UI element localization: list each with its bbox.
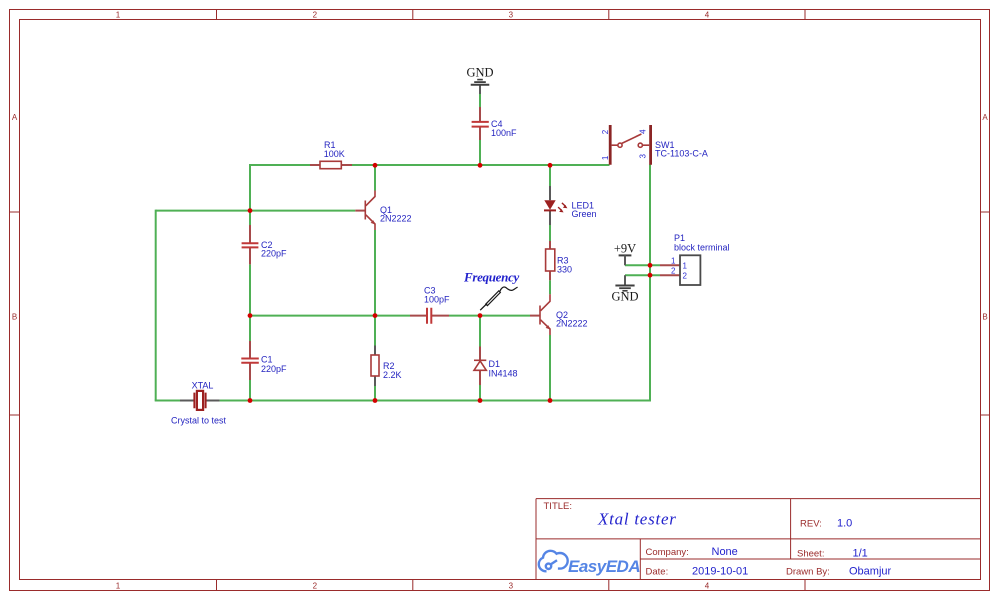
svg-text:1.0: 1.0 — [837, 518, 852, 530]
wire right vertical x650 — [649, 165, 651, 401]
svg-text:4: 4 — [705, 11, 710, 20]
ground GND top — [466, 66, 493, 95]
wire R2 bottom to bottom rail — [374, 386, 376, 401]
svg-text:100pF: 100pF — [424, 295, 450, 305]
EasyEDA logo cloud icon — [539, 551, 568, 572]
frame ticks left — [10, 212, 20, 415]
svg-text:IN4148: IN4148 — [489, 369, 518, 379]
wire top rail right of R1 — [352, 164, 610, 166]
svg-text:1: 1 — [683, 262, 688, 271]
svg-text:P1: P1 — [674, 233, 685, 243]
switch SW1 — [610, 125, 650, 165]
connector P1 block terminal — [660, 255, 700, 285]
resistor R3 — [546, 241, 555, 280]
svg-text:100K: 100K — [324, 149, 345, 159]
capacitor C4 — [472, 107, 489, 140]
frame ticks right — [981, 212, 990, 415]
junction dots — [248, 163, 653, 403]
svg-text:1: 1 — [671, 257, 676, 266]
power flag +9V — [614, 241, 636, 265]
svg-text:B: B — [12, 313, 17, 322]
wire vertical x250 top to C2 — [249, 164, 251, 225]
svg-text:EasyEDA: EasyEDA — [568, 557, 640, 576]
capacitor C2 — [242, 225, 259, 264]
svg-text:330: 330 — [557, 265, 572, 275]
wire top rail to LED1 — [549, 165, 551, 186]
crystal XTAL — [180, 391, 220, 410]
svg-text:REV:: REV: — [800, 519, 822, 530]
svg-text:Sheet:: Sheet: — [797, 549, 824, 560]
node top rail / Q1 collector — [373, 163, 378, 168]
svg-text:1/1: 1/1 — [853, 548, 868, 560]
frame ticks bottom — [217, 580, 806, 591]
wire +9V to P1 pin1 — [625, 264, 660, 266]
svg-text:block terminal: block terminal — [674, 243, 730, 253]
svg-text:Date:: Date: — [646, 567, 669, 578]
svg-text:A: A — [982, 113, 988, 122]
node bottom rail / R2 — [373, 398, 378, 403]
svg-text:XTAL: XTAL — [192, 381, 214, 391]
svg-text:2: 2 — [683, 272, 688, 281]
svg-text:Green: Green — [572, 209, 597, 219]
node base rail / C2 — [248, 208, 253, 213]
svg-text:220pF: 220pF — [261, 364, 287, 374]
svg-text:C1: C1 — [261, 355, 273, 365]
probe symbol — [480, 287, 517, 310]
svg-text:3: 3 — [509, 582, 514, 591]
svg-text:220pF: 220pF — [261, 249, 287, 259]
wire GND to P1 pin2 — [625, 274, 660, 276]
wire top rail left of R1 — [250, 164, 310, 166]
title block borders — [536, 499, 981, 580]
diode D1 — [474, 347, 486, 386]
wire bottom rail left of XTAL — [155, 400, 180, 402]
svg-text:None: None — [712, 546, 738, 558]
node top rail / C4 — [478, 163, 483, 168]
wire D1 to bottom rail — [479, 385, 481, 401]
wire middle rail y315 right of C3 — [449, 315, 530, 317]
svg-text:Obamjur: Obamjur — [849, 566, 892, 578]
svg-text:4: 4 — [705, 582, 710, 591]
svg-text:1: 1 — [116, 11, 121, 20]
svg-text:GND: GND — [611, 290, 638, 304]
svg-text:1: 1 — [601, 155, 610, 160]
svg-text:2: 2 — [313, 582, 318, 591]
node top rail / LED1 — [548, 163, 553, 168]
svg-text:Frequency: Frequency — [463, 270, 520, 285]
svg-text:TC-1103-C-A: TC-1103-C-A — [655, 149, 708, 159]
svg-text:A: A — [12, 113, 18, 122]
svg-text:Drawn By:: Drawn By: — [786, 567, 830, 578]
svg-text:+9V: +9V — [614, 241, 636, 255]
svg-text:2019-10-01: 2019-10-01 — [692, 566, 748, 578]
svg-text:2N2222: 2N2222 — [380, 214, 412, 224]
frame ticks top — [217, 10, 806, 20]
transistor Q2 — [530, 294, 551, 335]
svg-text:Crystal to test: Crystal to test — [171, 416, 227, 426]
svg-text:D1: D1 — [489, 359, 501, 369]
node bottom rail / D1 — [478, 398, 483, 403]
resistor R1 — [310, 161, 352, 168]
wire Q1 collector to top rail — [374, 165, 376, 191]
svg-text:1: 1 — [116, 582, 121, 591]
svg-text:Company:: Company: — [646, 547, 689, 558]
wire LED1 to R3 — [549, 225, 551, 241]
wire vertical x250 C1 to bottom rail — [249, 380, 251, 401]
svg-text:TITLE:: TITLE: — [544, 501, 573, 512]
wire R3 to Q2 collector — [549, 280, 551, 294]
wire Q1 emitter to middle rail — [374, 230, 376, 346]
node P1 pin1 — [648, 263, 653, 268]
capacitor C1 — [241, 341, 258, 380]
svg-text:2: 2 — [671, 267, 676, 276]
wire left vertical x155 — [155, 210, 157, 401]
wire bottom rail right of XTAL — [220, 400, 651, 402]
svg-text:B: B — [982, 313, 987, 322]
LED LED1 — [544, 186, 567, 225]
wire middle rail y315 left of C3 — [250, 315, 410, 317]
svg-text:2: 2 — [313, 11, 318, 20]
wire GND to C4 — [479, 94, 481, 107]
svg-text:100nF: 100nF — [491, 128, 517, 138]
wire vertical x250 C2 to C1 — [249, 264, 251, 341]
wire Q2 emitter to bottom rail — [549, 335, 551, 401]
resistor R2 — [371, 346, 379, 387]
svg-text:3: 3 — [509, 11, 514, 20]
node middle rail / Q1 emitter R2 — [373, 313, 378, 318]
svg-text:Xtal tester: Xtal tester — [597, 510, 677, 529]
svg-text:2.2K: 2.2K — [383, 370, 402, 380]
svg-text:2: 2 — [601, 129, 610, 134]
svg-text:4: 4 — [639, 129, 648, 134]
svg-text:2N2222: 2N2222 — [556, 319, 588, 329]
node middle rail / D1 probe — [478, 313, 483, 318]
capacitor C3 — [410, 308, 449, 324]
ground GND bottom — [611, 275, 638, 303]
wire middle rail to D1 — [479, 316, 481, 347]
node middle rail / C2-C1 — [248, 313, 253, 318]
transistor Q1 — [355, 191, 375, 231]
node P1 pin2 — [648, 273, 653, 278]
node bottom rail / Q2 emitter — [548, 398, 553, 403]
wire horizontal base rail y210 — [156, 210, 356, 212]
node bottom rail / C1 — [248, 398, 253, 403]
svg-text:3: 3 — [639, 153, 648, 158]
wire C4 to top rail — [479, 140, 481, 165]
svg-text:GND: GND — [466, 66, 493, 80]
